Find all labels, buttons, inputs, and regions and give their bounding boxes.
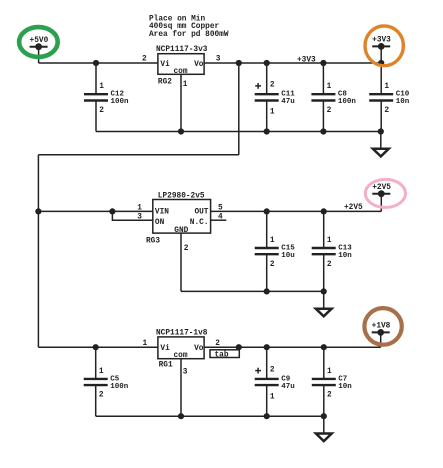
svg-text:2: 2	[99, 392, 104, 400]
junction Vi rail / C5	[93, 344, 99, 350]
wire N.C. stub	[211, 219, 227, 221]
svg-text:RG2: RG2	[158, 79, 172, 87]
capacitor C11 47u	[255, 63, 296, 132]
svg-text:LP2980-2v5: LP2980-2v5	[158, 192, 205, 200]
svg-text:1: 1	[137, 204, 142, 212]
junction VIN / ON tie	[109, 208, 115, 214]
svg-text:10n: 10n	[338, 252, 352, 260]
junction ground rail 1 / C10 / ground	[378, 128, 384, 134]
svg-text:VIN: VIN	[155, 209, 169, 217]
power symbol +2V5	[372, 184, 391, 211]
junction ground rail 2 / C13 / ground	[321, 288, 327, 294]
svg-text:2: 2	[270, 82, 275, 90]
wire 3V3 rail (RG2 Vo to +3V3)	[204, 62, 381, 64]
svg-text:2: 2	[270, 261, 275, 269]
svg-text:tab: tab	[215, 351, 229, 359]
capacitor C8 100n	[311, 63, 356, 132]
svg-text:1: 1	[384, 83, 389, 91]
svg-text:Vo: Vo	[194, 345, 204, 353]
svg-text:10u: 10u	[281, 252, 295, 260]
svg-text:1: 1	[270, 393, 275, 401]
svg-text:2: 2	[327, 107, 332, 115]
junction ground rail 2 / C15	[264, 288, 270, 294]
svg-text:1: 1	[270, 109, 275, 117]
power symbol +5V0	[30, 37, 49, 63]
regulator U RG2 NCP1117-3v3	[156, 46, 208, 86]
svg-text:2: 2	[327, 392, 332, 400]
junction ground rail 1 / C8	[320, 128, 326, 134]
svg-text:2: 2	[384, 107, 389, 115]
svg-text:10n: 10n	[396, 98, 410, 106]
junction feed / RG3 input	[35, 208, 41, 214]
svg-text:100n: 100n	[111, 98, 130, 106]
wire ground rail 1	[96, 131, 381, 133]
junction 1V8 rail / tab	[236, 344, 242, 350]
capacitor C7 10n	[312, 347, 353, 416]
junction 2V5 rail / C15	[264, 208, 270, 214]
svg-text:1: 1	[99, 368, 104, 376]
junction com / ground rail 1	[178, 128, 184, 134]
junction 1V8 rail / C9	[264, 344, 270, 350]
wire ground rail 2	[181, 290, 324, 292]
svg-text:ON: ON	[155, 219, 165, 227]
wire RG1 com to ground rail 3	[180, 359, 182, 417]
svg-text:OUT: OUT	[194, 209, 208, 217]
svg-text:2: 2	[327, 261, 332, 269]
svg-text:+2V5: +2V5	[344, 204, 363, 212]
svg-text:com: com	[174, 352, 188, 360]
wire 1V8 rail (RG1 Vo to +1V8)	[204, 346, 381, 348]
junction at C12 / 5V rail	[93, 60, 99, 66]
svg-text:47u: 47u	[281, 98, 295, 106]
junction 3V3 rail / C11	[264, 60, 270, 66]
junction 3V3 rail / down-feed	[236, 60, 242, 66]
capacitor C5 100n	[84, 347, 129, 416]
svg-text:+3V3: +3V3	[297, 56, 316, 64]
svg-text:Vo: Vo	[194, 61, 204, 69]
power symbol +3V3	[372, 37, 391, 63]
wire 3V3 feed horizontal	[38, 154, 238, 156]
svg-text:47u: 47u	[281, 383, 295, 391]
svg-text:RG3: RG3	[146, 238, 160, 246]
svg-text:1: 1	[99, 83, 104, 91]
svg-text:2: 2	[184, 245, 189, 253]
svg-text:1: 1	[327, 368, 332, 376]
junction ground rail 3 / C7 / ground	[321, 413, 327, 419]
wire +5V0 rail to RG2 Vi	[39, 62, 158, 64]
highlight circle (orange) around +3V3	[365, 26, 403, 66]
wire 3V3 down-feed vertical	[238, 63, 240, 155]
wire 2V5 rail (OUT to +2V5)	[211, 210, 382, 212]
svg-text:Vi: Vi	[160, 61, 170, 69]
capacitor C10 10n	[369, 63, 410, 132]
capacitor C12 100n	[84, 63, 129, 132]
junction 3V3 rail / C8	[320, 60, 326, 66]
svg-text:NCP1117-1v8: NCP1117-1v8	[156, 329, 208, 337]
svg-text:2: 2	[99, 107, 104, 115]
svg-text:10n: 10n	[338, 383, 352, 391]
wire 3V3 feed left vertical	[37, 155, 39, 347]
svg-text:100n: 100n	[338, 98, 357, 106]
svg-text:400sq mm Copper: 400sq mm Copper	[149, 23, 220, 31]
regulator U RG1 NCP1117-1v8	[156, 329, 208, 369]
junction 2V5 rail / C13	[321, 208, 327, 214]
svg-text:2: 2	[142, 56, 147, 64]
svg-text:3: 3	[183, 368, 188, 376]
capacitor C9 47u	[255, 347, 295, 416]
power symbol +1V8	[372, 323, 391, 348]
regulator U RG3 LP2980-2v5	[146, 192, 211, 245]
note text: placement instructions	[149, 16, 229, 40]
capacitor C13 10n	[312, 211, 353, 291]
svg-text:N.C.: N.C.	[190, 219, 209, 227]
wire ground rail 3	[96, 415, 324, 417]
ground (section 2)	[316, 291, 332, 316]
highlight circle (pink) around +2V5	[365, 179, 405, 207]
svg-text:1: 1	[327, 237, 332, 245]
svg-text:100n: 100n	[110, 383, 129, 391]
wire RG2 com to ground rail	[180, 74, 182, 131]
ground (section 3)	[316, 416, 332, 441]
svg-text:Area for pd 800mW: Area for pd 800mW	[149, 31, 229, 39]
svg-text:1: 1	[270, 237, 275, 245]
wire to RG3 VIN	[38, 210, 152, 212]
svg-text:NCP1117-3v3: NCP1117-3v3	[156, 46, 208, 54]
junction ground rail 1 / C11	[264, 128, 270, 134]
junction ground rail 3 / C9	[264, 413, 270, 419]
junction ground rail 3 / com	[178, 413, 184, 419]
tab pad box of RG1	[210, 350, 239, 360]
svg-text:1: 1	[143, 340, 148, 348]
wire to RG1 Vi	[38, 346, 157, 348]
junction 3V3 rail / C10 / +3V3	[378, 60, 384, 66]
ground (section 1)	[373, 132, 389, 157]
svg-text:RG1: RG1	[159, 362, 173, 370]
highlight circle (green) around +5V0	[19, 27, 58, 57]
highlight circle (brown) around +1V8	[364, 308, 401, 345]
svg-text:Vi: Vi	[160, 345, 170, 353]
wire VIN-ON tie	[112, 211, 152, 220]
svg-text:1: 1	[327, 83, 332, 91]
wire RG3 GND to ground rail 2	[180, 233, 182, 291]
capacitor C15 10u	[255, 211, 296, 291]
svg-text:3: 3	[137, 214, 142, 222]
svg-text:1: 1	[183, 81, 188, 89]
junction 1V8 rail / C7	[321, 344, 327, 350]
svg-text:2: 2	[270, 366, 275, 374]
